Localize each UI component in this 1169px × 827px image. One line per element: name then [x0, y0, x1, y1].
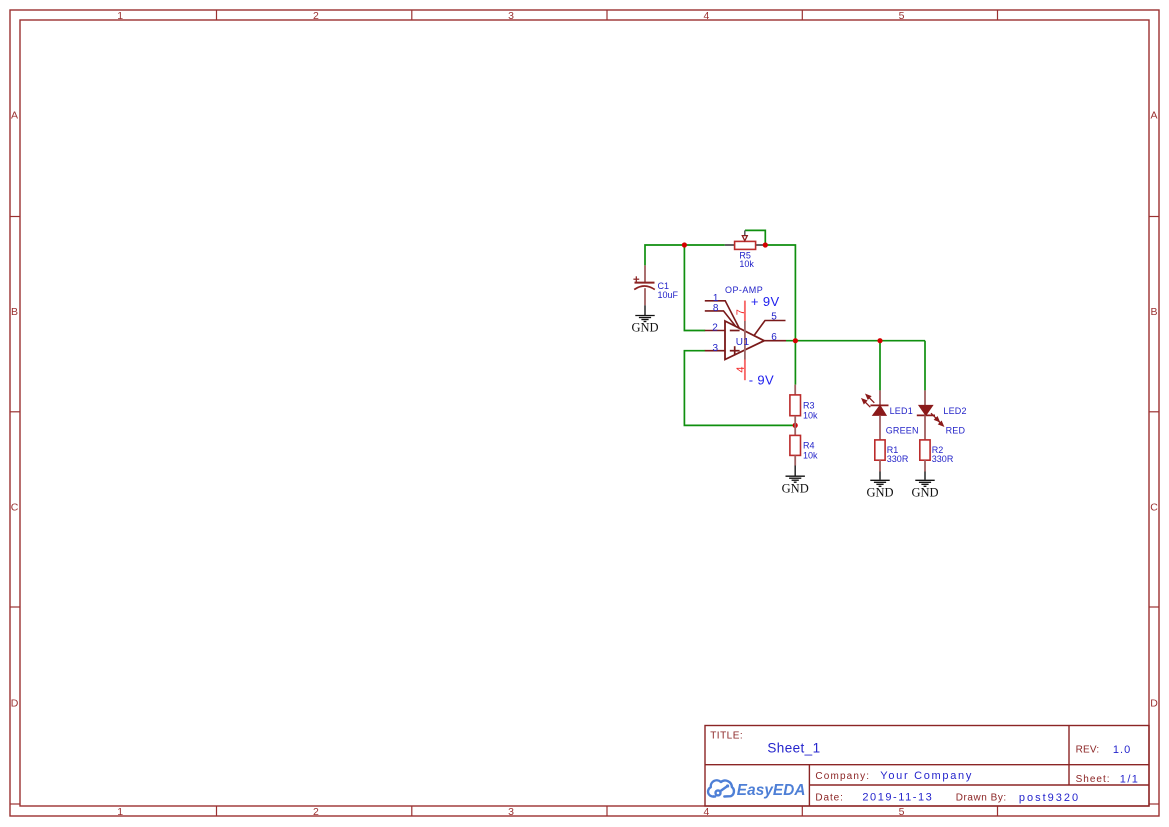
svg-text:5: 5 — [771, 311, 777, 322]
svg-text:Your Company: Your Company — [880, 770, 973, 782]
svg-text:10k: 10k — [739, 259, 754, 269]
svg-text:2019-11-13: 2019-11-13 — [862, 792, 933, 804]
svg-text:A: A — [1150, 110, 1157, 122]
svg-text:Drawn By:: Drawn By: — [956, 793, 1007, 804]
emission arrows — [931, 413, 943, 426]
svg-text:3: 3 — [508, 806, 514, 818]
svg-text:3: 3 — [713, 343, 719, 354]
svg-text:1: 1 — [117, 10, 123, 22]
svg-text:B: B — [1150, 306, 1157, 318]
svg-text:GND: GND — [911, 486, 938, 500]
svg-text:2: 2 — [313, 10, 319, 22]
svg-text:LED1: LED1 — [890, 406, 913, 416]
svg-text:C: C — [11, 502, 19, 514]
svg-text:10uF: 10uF — [658, 290, 679, 300]
svg-text:R4: R4 — [803, 441, 815, 451]
svg-text:GREEN: GREEN — [886, 425, 919, 435]
svg-text:B: B — [11, 306, 18, 318]
svg-text:330R: 330R — [932, 454, 954, 464]
svg-text:8: 8 — [713, 303, 719, 314]
svg-text:3: 3 — [508, 10, 514, 22]
LED1 (green) — [862, 390, 919, 440]
wire LED2 drop — [924, 341, 926, 391]
svg-text:1/1: 1/1 — [1120, 773, 1140, 785]
svg-text:4: 4 — [735, 366, 747, 372]
svg-text:Sheet_1: Sheet_1 — [767, 740, 820, 755]
pin 1 — [705, 301, 740, 328]
LED2 (red) — [917, 390, 967, 440]
resistor R2 — [920, 440, 954, 480]
pin 3 — [705, 350, 725, 352]
pin 7 V+ — [744, 301, 746, 321]
svg-text:7: 7 — [735, 309, 747, 315]
ground GND (R2) — [915, 480, 934, 486]
svg-text:D: D — [11, 698, 19, 710]
minus sign — [730, 330, 740, 332]
svg-text:Date:: Date: — [815, 793, 843, 804]
svg-text:2: 2 — [313, 806, 319, 818]
svg-text:2: 2 — [712, 323, 718, 334]
svg-text:5: 5 — [899, 10, 905, 22]
pin 4 V- — [744, 360, 746, 381]
ground GND (R1) — [870, 480, 889, 486]
svg-text:Company:: Company: — [815, 771, 870, 782]
svg-text:RED: RED — [946, 425, 966, 435]
junction at R5 right terminal — [763, 242, 768, 247]
svg-text:+ 9V: + 9V — [751, 294, 780, 309]
emission arrows — [862, 395, 874, 408]
svg-text:1: 1 — [117, 806, 123, 818]
svg-text:4: 4 — [703, 806, 709, 818]
svg-text:post9320: post9320 — [1019, 792, 1080, 804]
svg-text:REV:: REV: — [1076, 745, 1100, 756]
svg-text:EasyEDA: EasyEDA — [737, 782, 806, 799]
svg-text:5: 5 — [899, 806, 905, 818]
svg-text:10k: 10k — [803, 450, 818, 460]
svg-text:C: C — [1150, 502, 1158, 514]
wire LED1 drop — [879, 341, 881, 391]
wire R5 right to output junction (feedback vertical) — [765, 245, 795, 341]
triangle body — [725, 321, 764, 360]
svg-text:R3: R3 — [803, 401, 815, 411]
svg-text:10k: 10k — [803, 410, 818, 420]
pin 8 — [705, 311, 736, 326]
power line inside triangle — [744, 321, 746, 360]
junction at op-amp output node — [793, 338, 798, 343]
resistor R1 — [875, 440, 909, 480]
pin 6 output — [764, 340, 786, 342]
pin 2 — [705, 330, 725, 332]
svg-text:GND: GND — [631, 321, 658, 335]
svg-text:GND: GND — [866, 486, 893, 500]
wire pin3 to R3/R4 node — [684, 351, 795, 426]
pin 5 — [754, 321, 786, 336]
svg-text:D: D — [1150, 698, 1158, 710]
junction at top rail / pin2 branch — [682, 242, 687, 247]
ground GND (R4) — [786, 476, 805, 482]
potentiometer R5 — [725, 230, 764, 269]
svg-text:- 9V: - 9V — [749, 372, 774, 387]
wire pin2 feedback branch — [684, 245, 705, 331]
svg-text:330R: 330R — [887, 454, 909, 464]
svg-text:Sheet:: Sheet: — [1076, 774, 1111, 785]
resistor R4 — [790, 425, 818, 475]
junction at LED1 branch — [877, 338, 882, 343]
resistor R3 — [790, 385, 818, 426]
svg-text:A: A — [11, 110, 18, 122]
EasyEDA logo — [708, 780, 734, 796]
op-amp U1 — [705, 285, 786, 387]
svg-text:TITLE:: TITLE: — [710, 730, 743, 741]
wire R5 wiper loop — [745, 230, 765, 245]
ground GND (C1) — [635, 316, 654, 322]
svg-text:4: 4 — [703, 10, 709, 22]
wire net C1 to R5 left (top rail y=245) — [645, 245, 725, 265]
svg-text:GND: GND — [782, 481, 809, 495]
svg-text:6: 6 — [771, 332, 777, 343]
wire output down to R3 — [794, 341, 796, 385]
junction at R3/R4 node — [793, 423, 798, 428]
plus sign — [730, 350, 740, 352]
svg-text:1.0: 1.0 — [1113, 744, 1131, 756]
capacitor C1 — [633, 265, 678, 315]
wire output to LED rail — [786, 340, 925, 342]
svg-text:U1: U1 — [736, 337, 750, 348]
svg-text:LED2: LED2 — [943, 406, 966, 416]
